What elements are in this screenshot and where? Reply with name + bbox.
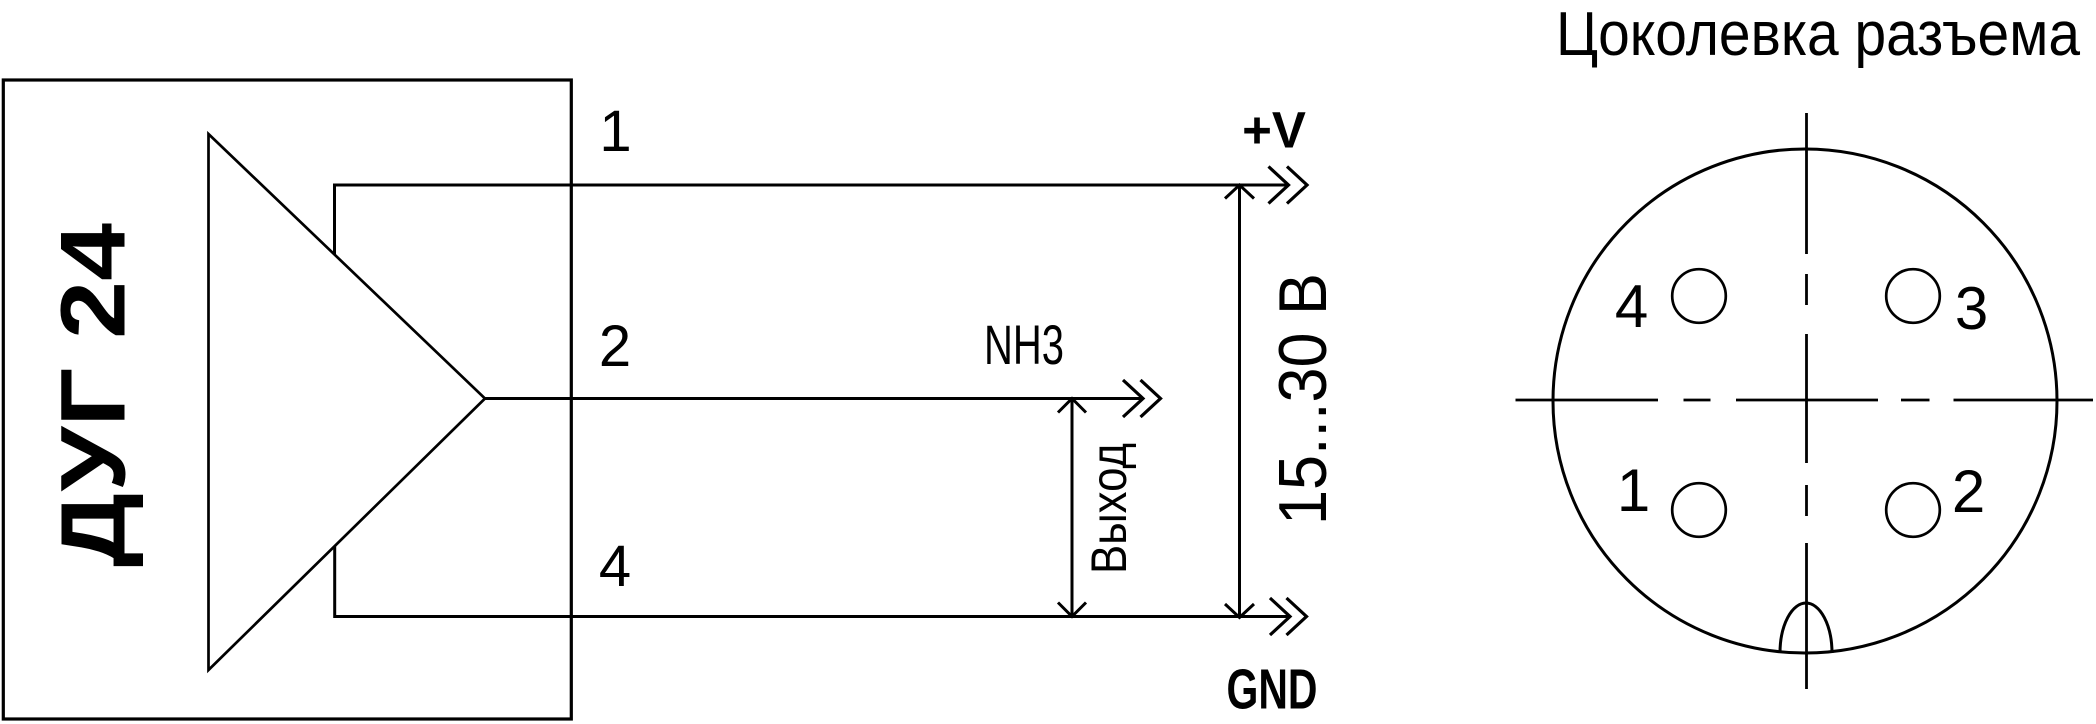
svg-text:3: 3 [1955, 275, 1988, 342]
svg-text:15...30 В: 15...30 В [1265, 273, 1341, 525]
svg-text:Выход: Выход [1081, 443, 1137, 574]
svg-text:2: 2 [599, 314, 631, 379]
svg-text:GND: GND [1227, 658, 1318, 722]
svg-text:Цоколевка разъема: Цоколевка разъема [1556, 0, 2080, 69]
svg-text:+V: +V [1242, 102, 1306, 159]
svg-text:2: 2 [1952, 458, 1985, 525]
svg-text:NH3: NH3 [984, 313, 1064, 376]
svg-text:4: 4 [1615, 273, 1648, 340]
svg-text:ДУГ 24: ДУГ 24 [43, 223, 145, 567]
svg-text:1: 1 [1617, 457, 1650, 524]
svg-text:1: 1 [599, 99, 631, 164]
svg-text:4: 4 [599, 534, 631, 599]
